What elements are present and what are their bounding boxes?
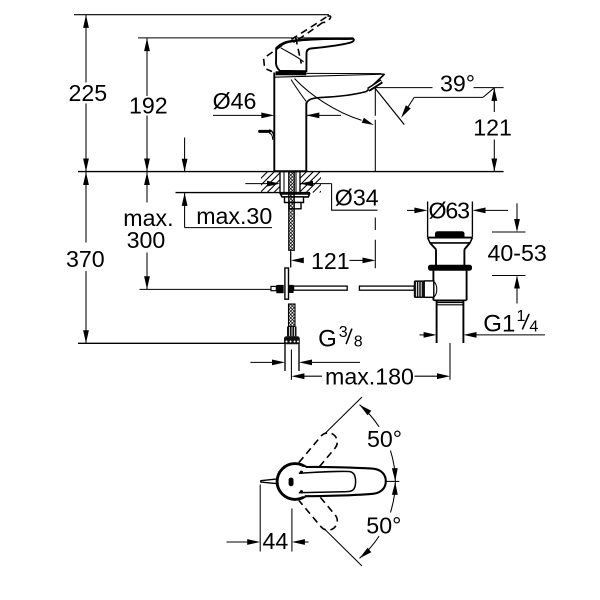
hose upper segment <box>289 172 295 250</box>
body right edge <box>305 103 307 172</box>
horizontal ref at outlet <box>375 87 433 89</box>
neck taper <box>430 243 436 250</box>
dim 192 line <box>146 38 148 96</box>
top face lower line <box>275 74 385 77</box>
44 dim ext lines <box>259 485 261 552</box>
handle outer stroke <box>305 467 386 496</box>
slot <box>289 478 294 487</box>
arrow 44 left <box>247 539 260 545</box>
arrow G114 right <box>464 332 477 338</box>
body bottom at counter <box>273 170 307 172</box>
faucet centerline ext <box>290 252 292 268</box>
arrow arc 0 upper <box>392 468 398 481</box>
arrow max300 top <box>144 172 150 185</box>
nut step1 <box>285 197 304 203</box>
top ref line (225) <box>74 14 329 16</box>
svg-text:121: 121 <box>473 115 512 141</box>
flange <box>428 237 473 239</box>
arrow dia63 left <box>414 208 427 214</box>
svg-text:G: G <box>318 326 337 353</box>
svg-text:39°: 39° <box>440 71 475 97</box>
bottom ref line (370) <box>78 342 284 344</box>
max30 underline <box>185 227 272 229</box>
svg-text:50°: 50° <box>367 426 402 452</box>
aerator <box>368 81 381 90</box>
arrow arc top end <box>360 405 372 416</box>
base circle fill <box>276 462 315 501</box>
lower body <box>432 271 434 281</box>
192 ref line <box>138 37 353 39</box>
dashed raised lever <box>282 16 328 45</box>
pin <box>261 479 278 481</box>
junction dark band <box>276 71 307 75</box>
supply centerline <box>290 350 292 380</box>
arrow max180 left <box>291 373 304 379</box>
arrow pipe dia right <box>299 360 312 366</box>
arrow max180 right <box>437 373 450 379</box>
dim 225 line <box>85 15 87 83</box>
body left edge <box>273 73 275 172</box>
dots <box>300 471 303 474</box>
counter bottom line <box>176 192 311 194</box>
clamp small left <box>271 286 276 290</box>
svg-text:Ø63: Ø63 <box>429 198 471 224</box>
radial lower <box>326 530 363 566</box>
dim max300 line <box>146 172 148 203</box>
rod line left <box>140 288 272 290</box>
arrow 39deg leader <box>401 105 411 118</box>
arrow 121v bottom <box>491 159 497 172</box>
dim 370 line <box>85 172 87 243</box>
svg-text:Ø34: Ø34 <box>335 185 379 211</box>
svg-text:4: 4 <box>529 319 538 336</box>
44 dim tails <box>227 541 249 543</box>
arrow dia34 right <box>300 181 313 187</box>
arrow max300 bottom <box>144 276 150 289</box>
svg-text:121: 121 <box>311 248 350 274</box>
spout tip face <box>366 74 384 92</box>
knurled knob <box>414 280 424 298</box>
cap button <box>435 231 465 237</box>
arrow dia63 right <box>473 208 486 214</box>
arrow pipe dia left <box>272 360 285 366</box>
arrow 225 top <box>83 15 89 28</box>
side port <box>424 281 434 297</box>
arrow 370 bottom <box>83 330 89 343</box>
body fill <box>274 73 384 172</box>
tailpipe <box>436 301 438 344</box>
counter hatching right <box>272 172 341 193</box>
hose lower segment <box>289 304 296 327</box>
dim max30 lines <box>184 138 186 172</box>
counter hatching left <box>233 172 302 193</box>
arrow 121v top <box>491 88 497 101</box>
svg-text:300: 300 <box>127 227 166 253</box>
rotation arc <box>360 405 380 427</box>
top face upper line <box>306 72 384 74</box>
arrow swivel arc <box>362 118 374 125</box>
lever inner line <box>281 48 304 62</box>
G3/8 nut <box>284 336 300 344</box>
drain centerline <box>449 343 451 380</box>
pop-up knob at rear <box>260 130 270 133</box>
svg-text:3: 3 <box>339 324 348 341</box>
arrow arc 0 lower <box>392 482 398 495</box>
arrow max30 upper <box>182 159 188 172</box>
svg-text:G1: G1 <box>483 311 515 338</box>
clamp block left <box>276 285 283 293</box>
arrow max30 lower <box>182 193 188 206</box>
dashed handle upper <box>299 429 341 474</box>
arrow 40-53 top <box>514 219 520 232</box>
arrow dia46 left <box>261 113 274 119</box>
arc 0deg tick <box>386 480 400 482</box>
arrow arc bottom end <box>360 548 372 559</box>
base circle stroke <box>277 464 313 500</box>
svg-text:Ø46: Ø46 <box>213 88 257 114</box>
clamp block right <box>289 285 294 293</box>
inner spout curve <box>291 80 306 102</box>
vertical rod <box>285 268 289 299</box>
svg-text:225: 225 <box>69 80 108 106</box>
nut step2 <box>289 203 301 209</box>
hose ferrule <box>287 327 297 337</box>
arrow 44 right <box>292 539 305 545</box>
39deg leader diagonals <box>404 97 414 113</box>
arrow 225 bottom <box>83 159 89 172</box>
lever top edge thick <box>276 39 353 49</box>
dashed handle lower <box>299 489 341 534</box>
arrow 40-53 bottom <box>514 276 520 289</box>
washer <box>281 194 310 197</box>
arrow 192 bottom <box>144 159 150 172</box>
swivel arc <box>295 79 362 121</box>
arrow 370 top <box>83 172 89 185</box>
supply pipe <box>284 344 286 371</box>
outlet projection line (dashed) <box>374 88 376 268</box>
svg-text:40-53: 40-53 <box>488 240 547 266</box>
seal ring <box>428 265 472 271</box>
horizontal rod right segment 1 <box>294 286 348 290</box>
svg-text:max.180: max.180 <box>325 364 414 390</box>
svg-text:44: 44 <box>263 528 289 554</box>
39deg underline <box>414 96 483 98</box>
svg-text:8: 8 <box>354 334 363 351</box>
arrow 192 top <box>144 38 150 51</box>
svg-text:max.30: max.30 <box>196 203 272 229</box>
lever solid <box>276 39 354 72</box>
stream direction line <box>375 88 405 125</box>
arrow dia34 left <box>267 181 280 187</box>
svg-text:50°: 50° <box>366 513 401 539</box>
cap side walls / dia63 ext <box>427 202 429 238</box>
horizontal rod right segment 2 <box>359 286 414 290</box>
radial upper <box>326 397 363 433</box>
handle fill <box>294 467 386 496</box>
handle inner inset <box>299 471 356 492</box>
upper body walls <box>435 249 437 265</box>
svg-text:192: 192 <box>129 92 168 118</box>
arrow 121h right <box>363 258 376 264</box>
arrow 121h left <box>291 258 304 264</box>
svg-text:370: 370 <box>66 246 105 272</box>
shank <box>279 172 281 194</box>
spout bottom edge <box>306 92 366 105</box>
counter top line <box>78 171 504 173</box>
svg-text:1: 1 <box>517 308 526 325</box>
arrow G114 left <box>424 332 437 338</box>
arrow dia46 right <box>306 113 319 119</box>
